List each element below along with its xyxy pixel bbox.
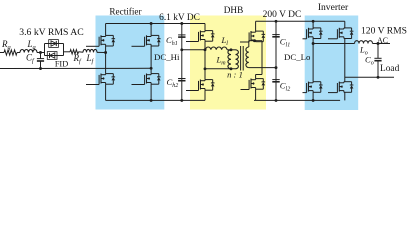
svg-text:Ch2: Ch2 — [167, 77, 179, 89]
svg-text:Load: Load — [380, 64, 400, 74]
svg-text:Cl1: Cl1 — [280, 37, 290, 49]
svg-text:n : 1: n : 1 — [227, 70, 243, 80]
svg-text:DHB: DHB — [224, 5, 243, 15]
svg-text:DC_Lo: DC_Lo — [284, 52, 311, 62]
svg-text:FID: FID — [55, 59, 68, 68]
svg-text:120 V RMS: 120 V RMS — [361, 26, 407, 37]
svg-text:DC_Hi: DC_Hi — [154, 52, 180, 62]
svg-text:Rg: Rg — [1, 39, 11, 51]
svg-text:200 V DC: 200 V DC — [263, 10, 302, 20]
svg-text:Cf: Cf — [26, 53, 35, 65]
svg-text:3.6 kV RMS AC: 3.6 kV RMS AC — [19, 27, 83, 38]
svg-text:6.1 kV DC: 6.1 kV DC — [159, 13, 200, 23]
svg-text:Rectifier: Rectifier — [109, 7, 141, 17]
svg-text:Cl2: Cl2 — [280, 81, 290, 93]
svg-text:Lf: Lf — [86, 53, 95, 65]
svg-text:Inverter: Inverter — [318, 2, 349, 13]
svg-text:Ch1: Ch1 — [166, 35, 178, 47]
svg-text:Rf: Rf — [73, 53, 83, 65]
svg-text:Co: Co — [365, 55, 374, 67]
